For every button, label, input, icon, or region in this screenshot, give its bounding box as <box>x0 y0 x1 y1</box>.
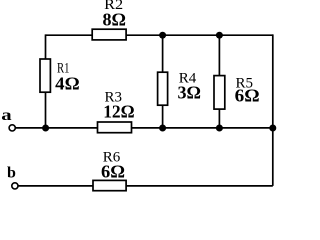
svg-text:6Ω: 6Ω <box>235 85 260 105</box>
resistor R5 <box>214 75 260 109</box>
resistor R6 <box>93 149 126 190</box>
node junction R4/top-wire <box>159 32 166 39</box>
wire right vertical <box>272 34 274 186</box>
svg-text:a: a <box>1 106 11 124</box>
wire left vertical lower <box>45 92 47 128</box>
svg-text:8Ω: 8Ω <box>103 9 127 29</box>
resistor R1 <box>40 59 80 93</box>
wire top-left horizontal <box>46 34 93 36</box>
wire R6 to right vertical <box>126 185 273 187</box>
node junction R5/top-wire <box>216 32 223 39</box>
svg-text:b: b <box>7 164 16 181</box>
wire node b to R6 <box>18 185 93 187</box>
wire R4 branch lower <box>162 105 164 128</box>
wire R5 branch lower <box>218 109 220 128</box>
terminal a <box>1 106 15 131</box>
wire R4 branch upper <box>162 35 164 72</box>
terminal b <box>7 164 18 189</box>
node junction R1/a-wire <box>42 125 49 132</box>
wire top-right of R2 <box>126 34 273 36</box>
node junction right-vertical/a-wire <box>269 125 276 132</box>
wire R5 branch upper <box>218 35 220 75</box>
wire left vertical upper <box>45 34 47 59</box>
svg-text:3Ω: 3Ω <box>178 82 202 102</box>
wire R3 to right vertical <box>132 127 273 129</box>
resistor R3 <box>98 89 135 132</box>
resistor R2 <box>92 0 126 40</box>
svg-text:4Ω: 4Ω <box>55 73 79 93</box>
svg-text:12Ω: 12Ω <box>103 101 135 121</box>
svg-text:6Ω: 6Ω <box>101 161 125 181</box>
node junction R4/a-wire <box>159 125 166 132</box>
resistor R4 <box>158 70 201 105</box>
wire node a to R3 <box>16 127 98 129</box>
node junction R5/a-wire <box>216 125 223 132</box>
